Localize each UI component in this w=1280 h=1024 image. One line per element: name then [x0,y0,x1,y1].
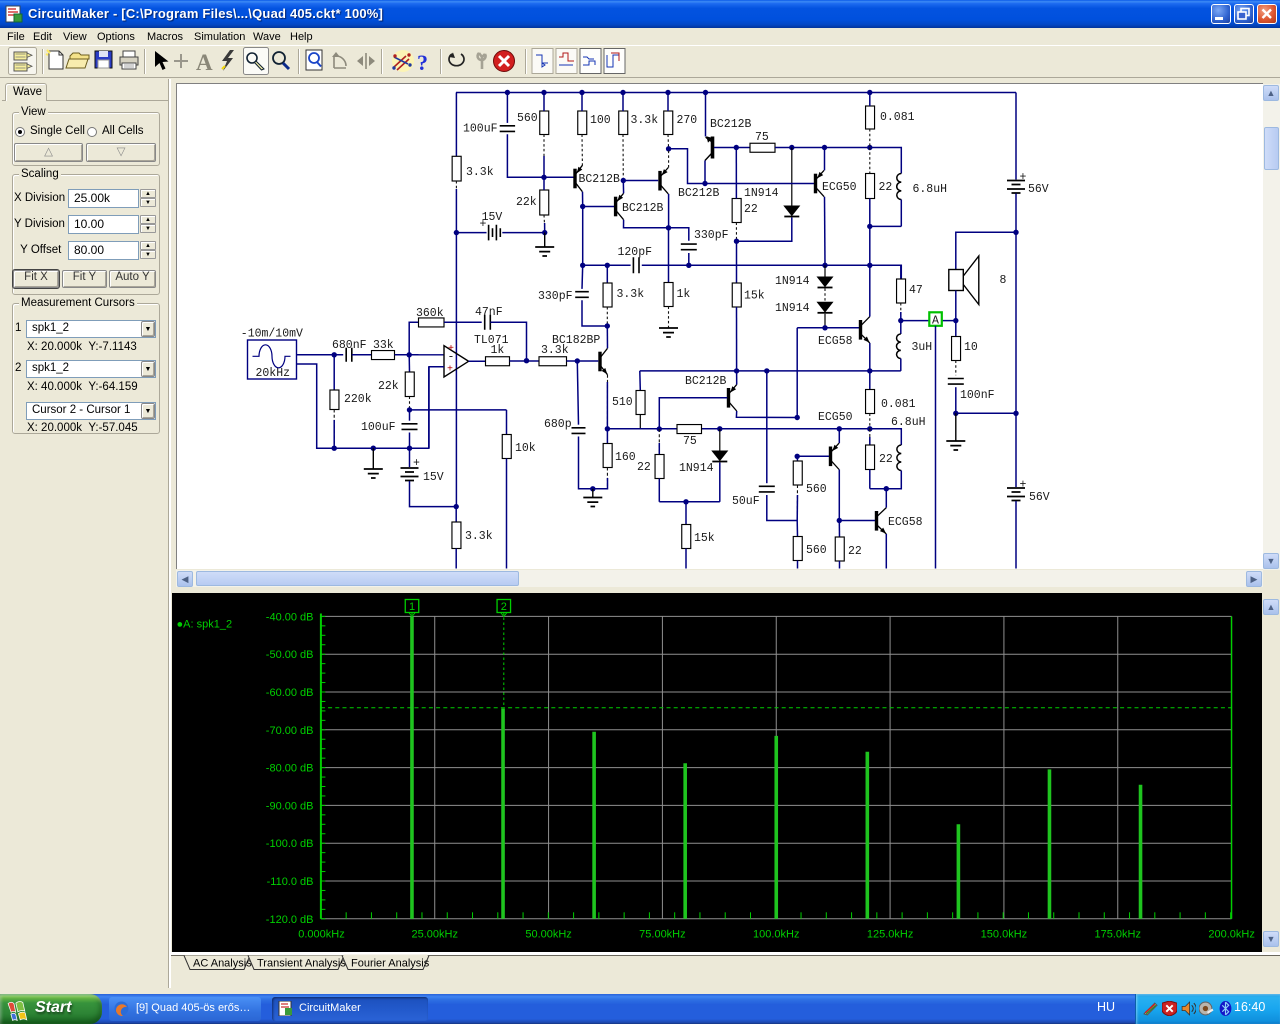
wire probe A down [935,326,937,569]
resistor R 160 [606,429,608,444]
node Q3 collector / 1k / 330pF-right [666,225,671,230]
wire right rail middle [1015,232,1017,413]
svg-text:10k: 10k [515,442,536,455]
wire Q10 collector up [885,489,887,508]
ground rail input [317,367,429,448]
svg-text:15k: 15k [694,532,715,545]
wire Q9 base [797,455,829,457]
wire Q6 collector up [869,265,871,316]
svg-text:-10m/10mV: -10m/10mV [241,328,303,341]
svg-text:ECG58: ECG58 [818,335,853,348]
svg-text:+: + [413,457,420,470]
svg-text:150.0kHz: 150.0kHz [980,929,1026,941]
node speaker branch [1013,230,1018,235]
svg-text:0.081: 0.081 [881,398,916,411]
capacitor C 680nF [346,348,352,362]
svg-text:47nF: 47nF [475,306,503,319]
svg-text:1N914: 1N914 [679,462,714,475]
resistor R 0.081 top [866,106,875,129]
wire node to 330pF-left [582,207,584,266]
node 0.081 bottom [867,145,872,150]
node gnd symbol [371,446,376,451]
svg-text:33k: 33k [373,339,394,352]
svg-text:330pF: 330pF [538,290,573,303]
resistor R 15k bottom [685,502,687,525]
node right rail lower [1013,411,1018,416]
wire 270-node over to Q4 collector node [669,149,705,184]
wire Q10 emitter down [885,534,887,569]
svg-text:75.00kHz: 75.00kHz [639,929,685,941]
node diode bottom / ECG58 base [822,325,827,330]
transistor Q3 BC212B [660,168,668,194]
svg-text:BC212B: BC212B [710,118,752,131]
svg-text:22: 22 [637,461,651,474]
svg-text:680p: 680p [544,418,572,431]
inductor L 6.8uH mid [897,445,901,471]
inductor L 6.8uH top [897,174,902,200]
resistor R 560 top [796,456,798,461]
wire Q8 emitter up [736,371,738,385]
wire Q8 collector right [736,411,797,418]
svg-text:25.00kHz: 25.00kHz [411,929,457,941]
resistor R 0.081 mid [869,371,871,390]
wire zobel to right rail [956,412,1016,414]
resistor R 22 midleft [658,429,660,455]
capacitor C 50uF [766,371,768,483]
battery V 15V lower [409,448,411,467]
transistor Q4 BC212B top [705,93,707,137]
resistor R 270 [664,111,673,135]
node battery minus / left rail [454,504,459,509]
node Q2 emitter / Q3 base [621,178,626,183]
resistor R 560 bottom [796,521,798,537]
resistor R 100 [578,111,587,135]
node zobel gnd [953,411,958,416]
capacitor C 100nF zobel [948,379,964,385]
svg-text:50uF: 50uF [732,495,760,508]
node ECG50-mid base [795,454,800,459]
node top rail junctions [505,90,510,95]
transistor Q10 ECG58 bottom [877,508,887,534]
node 560/22k/base junction [541,175,546,180]
transistor Q2 BC212B [616,193,624,219]
node 270 bottom / Q3 emitter [666,146,671,151]
svg-text:-50.00 dB: -50.00 dB [265,649,313,661]
resistor R 75 top [736,147,750,149]
wire left rail from top rail down to -15V node [455,93,457,157]
resistor R 22k input [408,355,410,372]
transistor Q7 BC182BP [600,348,608,374]
svg-text:3.3k: 3.3k [617,288,645,301]
resistor R 560 [540,111,549,135]
resistor R 22 mid [732,199,741,223]
node 3.3k-mid bottom / BC182BP collector [605,323,610,328]
svg-text:-80.00 dB: -80.00 dB [265,763,313,775]
svg-text:0.000kHz: 0.000kHz [298,929,344,941]
rail mid y371 [640,370,901,372]
svg-text:560: 560 [806,483,827,496]
capacitor C 120pF [633,257,639,273]
svg-text:-70.00 dB: -70.00 dB [265,725,313,737]
svg-text:22: 22 [879,453,893,466]
resistor R 22 bottomright [869,429,871,445]
node ECG50-mid emitter [837,426,842,431]
svg-text:+: + [480,218,487,231]
wire 6.8uH bottom left [870,225,902,227]
svg-text:3uH: 3uH [912,341,933,354]
svg-text:175.0kHz: 175.0kHz [1094,929,1140,941]
node 75 right / 1N914 top [789,145,794,150]
svg-text:Transient Analysis: Transient Analysis [257,958,346,970]
wire A row [901,320,956,322]
svg-text:A: A [932,315,939,328]
capacitor C 100uF input [409,410,411,421]
wire Q5 emitter up [824,148,826,171]
node 50uF top [764,368,769,373]
svg-text:100uF: 100uF [361,421,396,434]
node Q9 collector / ECG58 base [837,518,842,523]
svg-text:3.3k: 3.3k [631,114,659,127]
node 100uF gnd / battery [407,446,412,451]
resistor R 3.3k opamp [539,357,567,366]
svg-text:Fourier Analysis: Fourier Analysis [351,958,430,970]
transistor Q9 ECG50 mid [831,443,840,469]
node ECG58-top collector rail [867,263,872,268]
resistor R 33k [372,351,395,360]
svg-text:560: 560 [806,544,827,557]
svg-text:-60.00 dB: -60.00 dB [265,687,313,699]
resistor R 15k top [736,241,738,283]
diode D 1N914 top [791,148,793,207]
resistor R 360k feedback [409,322,418,355]
battery V 56V bottom [1015,413,1017,487]
node base Q8 / 22 / 75-mid [657,426,662,431]
svg-text:-110.0 dB: -110.0 dB [266,876,313,888]
resistor R 510 [639,371,642,391]
wire Q4 collector down [704,161,706,184]
svg-text:1N914: 1N914 [775,275,810,288]
node 22/6.8uH/ECG58-bot collector [884,486,889,491]
inductor L 3uH [900,321,902,334]
wire Q9 emitter up [838,429,840,443]
resistor R 1k mid [668,228,670,283]
node opamp inverting input [407,352,412,357]
svg-text:+: + [1020,171,1027,184]
svg-text:1N914: 1N914 [744,187,779,200]
svg-text:47: 47 [909,284,923,297]
rail 120pF row [583,264,631,266]
wire Q2 collector down, right to node [624,220,669,228]
wire diode-node down-left leg [796,328,798,418]
svg-text:330pF: 330pF [694,229,729,242]
node Q4 collector / base wire ECG50 [702,181,707,186]
resistor R 22 bottom [838,521,840,538]
node 47 / 3uH [898,318,903,323]
source V1 -10m/10mV 20kHz [248,340,297,379]
ground G5 [955,413,957,440]
svg-text:56V: 56V [1028,183,1049,196]
svg-text:BC212B: BC212B [678,187,720,200]
node 330pF-left top [580,263,585,268]
svg-text:-: - [448,351,455,364]
svg-text:220k: 220k [344,393,372,406]
wire Q1 collector down [582,192,584,207]
wire base row of Q1 BC212B [544,176,574,178]
node diode ladder top [822,145,827,150]
node 220k gnd [332,446,337,451]
wire Q9 collector down [838,470,840,521]
svg-text:2: 2 [500,601,506,613]
svg-text:ECG50: ECG50 [822,181,857,194]
svg-text:22k: 22k [516,196,537,209]
wire source out - down to ground rail [296,364,334,448]
node Q8 collector / diode leg [795,415,800,420]
node battery minus / 22k / ground [542,230,547,235]
wire 22/1N914 bottom row [659,501,720,503]
svg-text:120pF: 120pF [618,246,653,259]
wire Q3 emitter up [668,149,670,168]
svg-text:1N914: 1N914 [775,302,810,315]
wire Q8 base row [659,398,727,429]
node 3.3k / BC182BP base / 680p [575,358,580,363]
capacitor C 680p [577,361,578,425]
svg-text:BC212B: BC212B [622,202,664,215]
rail y429 output stage [607,428,677,430]
svg-text:AC Analysis: AC Analysis [193,958,252,970]
svg-text:160: 160 [615,451,636,464]
resistor R 3.3k second [619,111,628,135]
svg-text:?: ? [417,50,428,75]
node output A [953,318,958,323]
resistor R 3.3k left-rail [452,156,461,181]
node 22 bottom / 1N914 / 15k [734,239,739,244]
svg-text:22: 22 [744,203,758,216]
svg-text:3.3k: 3.3k [466,166,494,179]
svg-text:-100.0 dB: -100.0 dB [265,838,313,850]
wire BC182BP emitter down [606,375,608,429]
ground G4 [592,489,594,497]
node left rail / battery [454,230,459,235]
node output/47nF [524,358,529,363]
svg-text:0.081: 0.081 [880,111,915,124]
svg-text:20kHz: 20kHz [256,367,291,380]
resistor R 75 mid [677,425,702,434]
node 0.081-mid bottom / 22 top [867,426,872,431]
wire Q6 emitter down [869,343,871,371]
wire top +56V rail [456,92,1016,94]
wire speaker bottom [955,291,957,321]
svg-text:125.0kHz: 125.0kHz [866,929,912,941]
op-amp U1 TL071 [409,354,444,356]
node diode ladder junction [822,263,827,268]
svg-text:360k: 360k [416,307,444,320]
transistor Q6 ECG58 top [861,317,870,343]
transistor Q5 ECG50 top [816,170,825,196]
ground G2 [372,448,374,468]
svg-text:BC212B: BC212B [685,375,727,388]
wire opamp output [469,360,486,362]
resistor R 10k [506,410,508,435]
svg-text:6.8uH: 6.8uH [913,183,948,196]
battery V 56V top [1007,181,1025,194]
node Q4 base / 75 / 22 [734,145,739,150]
resistor R 1k opamp [486,357,510,366]
node 330pF-right bottom [686,263,691,268]
ground G1 [544,233,546,247]
node 15k-bot top [683,499,688,504]
svg-text:22k: 22k [378,380,399,393]
node 22 / 6.8uH bottom [867,224,872,229]
node source/220k/680nF [332,352,337,357]
capacitor C 330pF right [669,228,689,241]
wire Q10 base [839,520,875,522]
wire Q4 base right [714,147,736,149]
node BC182BP emitter / 510 / 160 [605,426,610,431]
wire node down to rail [869,226,871,265]
wire 22k-node to 10k [410,409,507,411]
wire Q5 collector down [824,197,827,266]
svg-text:1k: 1k [677,288,691,301]
svg-text:BC212B: BC212B [579,173,621,186]
probe A marker [929,312,942,326]
node Q1 collector / Q2 base [580,204,585,209]
node 680p/160 ground node [590,486,595,491]
svg-text:75: 75 [755,131,769,144]
svg-text:100uF: 100uF [463,123,498,136]
resistor R 3.3k mid [606,265,608,283]
svg-text:22: 22 [848,545,862,558]
svg-text:3.3k: 3.3k [465,530,493,543]
svg-text:3.3k: 3.3k [541,344,569,357]
node 22k bottom / 100uF [407,407,412,412]
capacitor C 100uF top [506,93,508,123]
wire Q2 emitter up [622,181,624,194]
ground G3 below 1k [668,307,670,328]
svg-text:56V: 56V [1029,491,1050,504]
resistor R 3.3k bottom-left [455,507,457,522]
wire ECG58-top base row [797,327,859,329]
resistor R 22k top [540,190,549,215]
transistor Q1 BC212B [575,165,582,191]
svg-text:22: 22 [879,181,893,194]
svg-text:-90.00 dB: -90.00 dB [265,800,313,812]
wire opamp + input [429,367,444,448]
speaker SPK1 [956,232,1016,269]
battery V 15V top [456,232,486,234]
wire source out + [296,354,343,356]
capacitor C 330pF left [581,265,584,289]
svg-text:ECG50: ECG50 [818,411,853,424]
wire Q3 collector down to 1k node [668,194,670,228]
diode ladder D 1N914 x2 [824,265,826,277]
svg-text:1k: 1k [491,344,505,357]
transistor Q8 BC212B mid [729,385,737,411]
svg-text:680nF: 680nF [332,339,367,352]
wire Q2 base [583,206,614,208]
resistor R 220k [333,355,335,390]
svg-text:270: 270 [677,114,698,127]
svg-text:A: A [196,50,213,75]
resistor R 10 zobel [955,321,957,337]
diode D 1N914 mid [719,429,721,451]
resistor R 22 emitter top [866,174,875,199]
wire Q3 base [623,180,658,182]
node ECG58-top emitter / 0.081 mid [867,368,872,373]
svg-text:15V: 15V [423,471,444,484]
wire BC182BP collector up [606,326,608,348]
svg-text:8: 8 [1000,274,1007,287]
svg-text:+: + [1020,479,1027,492]
svg-text:200.0kHz: 200.0kHz [1208,929,1254,941]
svg-text:ECG58: ECG58 [888,516,923,529]
svg-text:-120.0 dB: -120.0 dB [265,914,313,926]
svg-text:100nF: 100nF [960,389,995,402]
svg-text:100.0kHz: 100.0kHz [753,929,799,941]
wire 0.081 row to 6.8uH [870,148,902,174]
svg-text:6.8uH: 6.8uH [891,416,926,429]
svg-text:+: + [447,365,453,376]
node 3.3k-mid top [605,263,610,268]
svg-text:75: 75 [683,435,697,448]
svg-text:560: 560 [517,112,538,125]
svg-text:100: 100 [590,114,611,127]
svg-text:50.00kHz: 50.00kHz [525,929,571,941]
svg-text:-40.00 dB: -40.00 dB [265,611,313,623]
svg-text:15k: 15k [744,290,765,303]
wire ECG50-top base [705,183,814,185]
svg-text:1: 1 [408,601,414,613]
wire right rail top [1015,93,1017,180]
svg-text:510: 510 [612,396,633,409]
resistor R 47 [900,265,902,279]
capacitor C 47nF feedback [485,315,491,330]
wire 75-row to 0.081 [792,147,870,149]
node 1N914-mid top [717,426,722,431]
svg-text:10: 10 [964,341,978,354]
svg-text:●A: spk1_2: ●A: spk1_2 [176,619,232,631]
node 15k bottom / BC212B-mid emitter [734,368,739,373]
